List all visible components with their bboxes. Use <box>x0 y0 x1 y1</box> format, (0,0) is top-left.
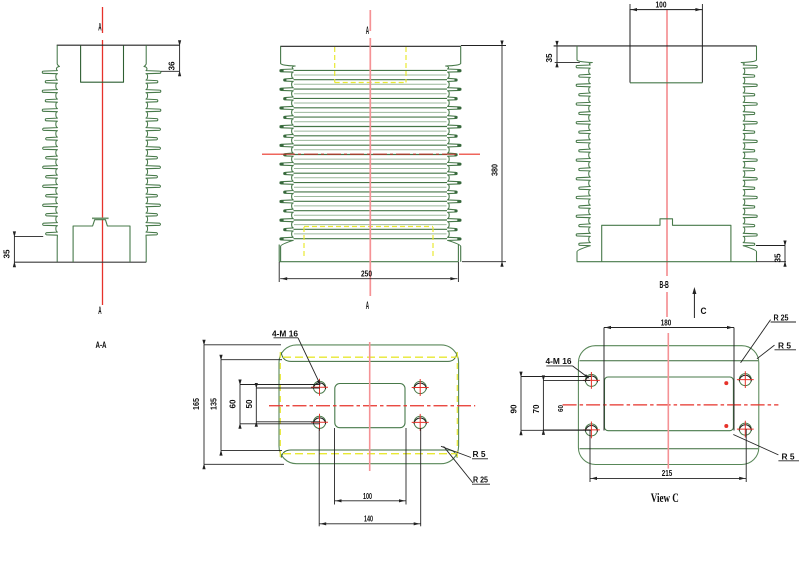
dimension 90 viewC left <box>520 377 522 431</box>
dimension 100 top block <box>629 4 631 10</box>
viewC pin hole top <box>724 381 728 385</box>
dimension 70 viewC left inner <box>542 380 544 430</box>
label R5 viewC bottom <box>733 435 778 455</box>
view A-A pedestal cap line <box>92 217 109 219</box>
dimension 180 viewC top <box>603 328 605 431</box>
plan view bolt hole bottom-left <box>313 416 325 428</box>
viewC horizontal centerline <box>563 404 779 406</box>
viewC bolt hole top-right <box>739 374 751 386</box>
svg-text:A-A: A-A <box>96 340 107 351</box>
view A-A base bottom line <box>14 261 146 263</box>
front view left shed column <box>280 46 295 261</box>
svg-text:A: A <box>98 20 101 33</box>
svg-text:4-M 16: 4-M 16 <box>272 330 299 339</box>
dimension 36 top-right of A-A <box>179 45 181 71</box>
front view hidden bottom pedestal yellow <box>303 227 305 259</box>
dimension 35 top-left of B-B <box>556 46 558 63</box>
svg-text:A: A <box>366 24 369 37</box>
view B-B base bottom line <box>577 261 756 263</box>
dimension 35 bottom-right of B-B <box>756 245 785 247</box>
viewC inner edge lines <box>580 360 759 362</box>
svg-text:4-M 16: 4-M 16 <box>546 357 573 366</box>
view A-A pedestal <box>73 220 130 262</box>
svg-text:C: C <box>701 306 707 316</box>
svg-text:180: 180 <box>661 318 672 327</box>
plan view bolt hole top-right <box>414 381 426 393</box>
dimension 140 plan bottom <box>318 428 320 526</box>
front view shed horizontal lines <box>294 69 448 71</box>
view A-A right shed column <box>144 45 161 262</box>
svg-text:60: 60 <box>229 399 238 409</box>
view B-B top block <box>630 10 702 83</box>
svg-text:A: A <box>98 304 101 317</box>
viewC vertical centerline <box>667 333 669 469</box>
label R5 viewC top <box>757 345 775 359</box>
front view horizontal centerline <box>281 153 459 155</box>
label R5 plan <box>441 446 471 457</box>
dimension 60 plan left <box>239 385 241 424</box>
front view vertical centerline <box>369 10 371 31</box>
viewC inner rounded rectangle <box>605 377 734 431</box>
view B-B left shed column <box>576 46 592 262</box>
svg-text:60: 60 <box>556 405 565 412</box>
svg-text:215: 215 <box>662 469 673 478</box>
front view section arrow A bottom <box>366 299 369 312</box>
view B-B vertical centerline <box>666 10 668 276</box>
svg-text:R 25: R 25 <box>473 476 488 485</box>
viewC bolt hole top-left <box>585 374 597 386</box>
view B-B label <box>660 278 669 291</box>
front view section arrow A top <box>366 24 369 37</box>
svg-text:250: 250 <box>361 269 372 278</box>
front view top plate line <box>280 45 461 47</box>
svg-text:70: 70 <box>532 404 541 414</box>
plan view inner rounded rectangle <box>335 384 405 428</box>
dimension 100 plan bottom <box>334 428 336 505</box>
svg-text:35: 35 <box>3 249 12 259</box>
plan view hidden yellow lines <box>283 356 456 358</box>
svg-text:View C: View C <box>651 491 679 505</box>
svg-text:R 5: R 5 <box>473 450 487 459</box>
dimension 50 plan left <box>255 388 257 422</box>
front view base side walls <box>278 245 280 262</box>
view A-A left shed column <box>42 45 59 262</box>
view C direction arrow <box>693 290 695 318</box>
view A-A left: section centerline <box>102 7 104 33</box>
svg-text:R 5: R 5 <box>782 452 796 461</box>
label R25 plan <box>444 446 473 483</box>
svg-text:35: 35 <box>545 53 554 63</box>
svg-text:100: 100 <box>656 1 667 10</box>
svg-text:50: 50 <box>245 399 254 409</box>
view A-A section arrow A top <box>98 20 101 33</box>
front view base bottom line <box>279 261 458 263</box>
dimension 165 plan left <box>203 345 205 465</box>
plan view horizontal centerline <box>269 405 475 407</box>
svg-text:R 25: R 25 <box>774 314 789 323</box>
plan view outer rounded rectangle <box>279 345 459 464</box>
dimension 35 bottom-left of A-A <box>13 236 15 262</box>
dimension 135 plan left <box>220 360 222 451</box>
front view right shed column <box>446 46 461 261</box>
viewC bolt hole bottom-left <box>585 424 597 436</box>
svg-text:135: 135 <box>210 398 219 410</box>
viewC pin hole bottom <box>724 424 728 428</box>
dimension 380 right side <box>461 45 506 47</box>
viewC outer rounded rectangle <box>578 346 758 465</box>
svg-text:140: 140 <box>364 514 373 523</box>
viewC bolt hole bottom-right <box>739 423 751 435</box>
svg-text:36: 36 <box>168 61 177 71</box>
label R25 viewC <box>741 320 771 363</box>
svg-text:A: A <box>366 299 369 312</box>
view A-A top plate line <box>57 44 180 46</box>
svg-text:100: 100 <box>363 492 372 501</box>
view A-A section arrow A bottom <box>98 304 101 317</box>
dimension 215 viewC bottom <box>589 430 591 482</box>
view B-B pedestal <box>602 219 731 262</box>
svg-text:R 5: R 5 <box>778 341 792 350</box>
front view hidden top cavity yellow <box>334 47 336 83</box>
svg-text:90: 90 <box>510 404 519 414</box>
svg-text:B-B: B-B <box>660 278 669 291</box>
view B-B right shed column <box>741 46 757 262</box>
svg-text:35: 35 <box>774 253 783 263</box>
plan view bolt hole bottom-right <box>414 416 426 428</box>
dimension 250 bottom <box>278 262 280 282</box>
view A-A cavity rectangle <box>81 46 124 83</box>
plan view vertical centerline <box>369 342 371 471</box>
svg-text:380: 380 <box>491 164 500 176</box>
plan view bolt hole top-left <box>313 381 325 393</box>
plan view hidden yellow edge ring <box>279 352 281 458</box>
view B-B top face line <box>554 45 757 47</box>
plan view inner edge line top <box>281 352 457 361</box>
svg-text:165: 165 <box>192 398 201 410</box>
plan view inner edge line bottom <box>281 450 457 458</box>
